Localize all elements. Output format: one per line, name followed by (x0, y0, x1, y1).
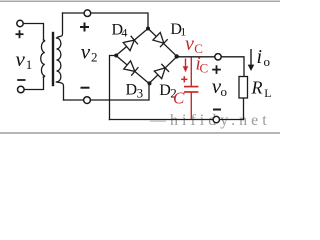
svg-text:D: D (126, 82, 138, 99)
plus sign vO (212, 65, 221, 74)
terminal: v1 bottom (18, 86, 25, 93)
bridge arm top-right (148, 29, 177, 57)
transformer primary winding L1 (41, 40, 45, 77)
bridge arm bottom-left (116, 56, 149, 84)
resistor RL body (239, 77, 248, 99)
svg-text:i: i (257, 46, 263, 68)
svg-text:v: v (16, 47, 26, 71)
svg-text:C: C (173, 89, 185, 108)
wire: secondary bottom to bridge bottom vertex (64, 84, 150, 101)
diode D1 (top vertex -> right vertex) (153, 32, 168, 47)
svg-text:D: D (159, 82, 171, 99)
junction node: bridge top vertex (146, 27, 150, 31)
svg-text:2: 2 (91, 50, 98, 65)
svg-text:—hifidy.net: —hifidy.net (149, 112, 271, 129)
svg-text:1: 1 (26, 57, 33, 72)
svg-text:v: v (185, 33, 194, 55)
current arrow iC (red) (183, 59, 189, 73)
capacitor top lead (190, 58, 192, 87)
svg-text:o: o (264, 54, 271, 69)
transformer core (52, 33, 54, 85)
terminal: v2 bottom (84, 97, 91, 104)
svg-text:R: R (251, 78, 263, 98)
svg-text:v: v (81, 40, 91, 64)
wire: bridge left vertex to bottom rail (110, 56, 117, 120)
svg-text:C: C (200, 61, 209, 76)
capacitor top plate (184, 86, 198, 88)
capacitor bottom lead (190, 92, 192, 119)
wire: primary bottom lead (24, 77, 43, 90)
svg-text:3: 3 (137, 86, 144, 101)
junction node: bridge right vertex (175, 54, 179, 58)
diode D3 (left vertex -> bottom vertex) (124, 61, 139, 76)
transformer secondary winding L2 (57, 38, 61, 82)
wire: top rail from secondary to bridge top (63, 13, 149, 29)
current arrow iO (248, 49, 255, 71)
minus sign v2 (81, 87, 90, 89)
top frame line (0, 0, 280, 2)
terminal: v2 top (84, 10, 91, 17)
plus sign v2 (80, 23, 89, 32)
wire: RL bottom lead (243, 98, 245, 120)
junction node: bridge bottom vertex (148, 81, 152, 85)
wire: v1 top terminal to primary top (23, 24, 43, 41)
wire: secondary bottom lead (57, 82, 64, 100)
terminal: output bottom (213, 116, 219, 122)
plus sign v1 (16, 30, 24, 38)
plus sign capacitor polarity (red) (181, 76, 187, 82)
svg-text:L: L (264, 86, 271, 100)
terminal: output top (215, 54, 221, 60)
bridge arm bottom-right (149, 57, 177, 84)
minus sign v1 (17, 79, 25, 81)
junction node: bridge left vertex (114, 54, 118, 58)
wire: secondary top lead (57, 13, 63, 38)
wire: bridge right vertex to RL top (177, 57, 244, 77)
terminal: v1 top (17, 20, 23, 26)
wire: bottom rail (110, 119, 244, 121)
bridge arm top-left (116, 29, 148, 56)
diode D4 (left vertex -> top vertex) (123, 36, 138, 51)
minus sign vO (213, 109, 221, 111)
svg-text:4: 4 (121, 25, 127, 39)
capacitor bottom plate (184, 91, 198, 93)
svg-text:o: o (221, 84, 228, 99)
diode D2 (bottom vertex -> right vertex) (154, 64, 169, 79)
bottom frame line (0, 132, 280, 134)
capacitor C (red, electrolytic with polarity) (184, 58, 198, 120)
